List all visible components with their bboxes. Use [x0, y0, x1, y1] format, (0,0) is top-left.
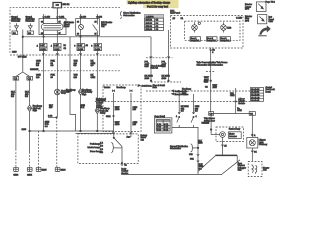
bcm legend table	[251, 88, 264, 103]
instrument cluster dashed box	[171, 15, 244, 48]
splice diamond S1	[66, 89, 93, 96]
page turn arrow	[258, 25, 271, 36]
svg-text:BPS: BPS	[245, 20, 250, 22]
svg-text:C-104: C-104	[97, 17, 103, 19]
svg-text:C-210: C-210	[45, 17, 51, 19]
svg-text:Schematics C24 Schematics: Schematics C24 Schematics	[197, 63, 223, 66]
door bus right box	[249, 112, 255, 116]
cluster inner dashed box	[185, 21, 240, 40]
svg-text:4: 4	[51, 45, 52, 47]
svg-text:Ckt: Ckt	[141, 138, 145, 141]
diagonal wire to bus bar	[198, 156, 215, 172]
class2 serial labels	[153, 85, 166, 89]
pin mark wire79 at C200	[79, 53, 81, 55]
relay pin numbers	[41, 22, 97, 36]
svg-text:Interior lamps: Interior lamps	[88, 146, 101, 149]
splice junction S209	[22, 122, 114, 132]
svg-text:87: 87	[95, 34, 97, 36]
door label 4door	[238, 99, 245, 105]
wire from fuse block down	[56, 8, 58, 21]
indicator lamp 1	[192, 22, 201, 32]
pin label stack wire 95	[94, 44, 102, 51]
dic wire pin mark	[210, 50, 212, 52]
pin mark serial1 C100	[146, 57, 173, 59]
svg-text:3 GRN: 3 GRN	[96, 107, 103, 109]
door wire pin mark	[235, 101, 237, 103]
wire 57 labels	[51, 61, 56, 79]
sunroof actuator box	[229, 132, 242, 139]
svg-text:GRN: GRN	[91, 77, 96, 79]
svg-text:G106: G106	[61, 169, 67, 171]
svg-text:Detail: Detail	[204, 122, 210, 125]
svg-text:Schematics: Schematics	[170, 147, 181, 150]
door switch wire top right	[235, 88, 237, 113]
interior ground wire	[197, 128, 199, 175]
headlamp switch dashed box	[103, 85, 141, 132]
svg-text:BPS: BPS	[245, 9, 250, 11]
connector mark on wire 79	[79, 16, 87, 18]
serial data note left	[138, 85, 152, 88]
svg-text:BLK: BLK	[80, 107, 85, 109]
stack pin numbers	[37, 44, 93, 50]
dashed boundary top underhood module	[10, 8, 120, 53]
ground splice symbol 2	[28, 23, 33, 30]
connector box left	[13, 76, 19, 80]
wire pin A relay K2	[80, 14, 82, 25]
door bus left box	[209, 112, 214, 116]
ground splice symbol 1	[14, 23, 19, 30]
splice dot S201	[106, 115, 114, 118]
svg-text:Schematic: Schematic	[26, 19, 35, 22]
wire col 57 mid	[56, 51, 58, 118]
connector mark C-211 on wire 57	[56, 16, 65, 18]
module boundary dashed upper	[146, 90, 250, 92]
offpage arrow box 2	[258, 15, 267, 24]
svg-text:86: 86	[41, 22, 43, 24]
wire 43 labels	[34, 61, 42, 79]
serial wire 1 labels	[145, 62, 154, 80]
MIC label	[170, 10, 180, 14]
wire D label	[49, 105, 53, 109]
svg-text:8 GY: 8 GY	[54, 45, 59, 47]
wire 57 dashed to ground	[56, 117, 58, 167]
door bus horizontal	[211, 112, 252, 114]
cluster right label	[269, 16, 275, 24]
cluster corner pin labels	[173, 17, 243, 20]
wire 97 lower	[96, 114, 98, 131]
twin master label	[204, 117, 215, 124]
door wire labels	[237, 108, 242, 112]
wire A G200 to ground	[15, 80, 17, 149]
relay K2 label	[101, 22, 113, 28]
svg-text:Aux: Aux	[127, 136, 130, 139]
svg-text:15A B3: 15A B3	[146, 25, 153, 28]
splice diamond S2	[95, 107, 110, 114]
svg-text:6: 6	[74, 45, 75, 47]
relay K1 box	[39, 19, 66, 35]
connector box right	[27, 76, 33, 80]
svg-text:Lamp Det: Lamp Det	[191, 39, 200, 42]
svg-text:Clstr: Clstr	[269, 20, 274, 23]
connector line C100 dashed	[38, 70, 120, 72]
highlight title bar	[127, 0, 179, 8]
svg-text:Passenger: Passenger	[96, 100, 106, 102]
relay K1 label	[64, 21, 75, 28]
radio wire pin mark	[178, 112, 180, 114]
switch pin symbol A	[112, 90, 114, 93]
switch wire B	[130, 93, 132, 133]
lower module dashed boundary	[78, 134, 138, 164]
sunroof dashed box	[216, 127, 244, 142]
svg-text:Courtesy: Courtesy	[259, 143, 268, 146]
wire col 79 mid	[80, 51, 82, 89]
connector mark C-210 on wire 43	[42, 16, 51, 18]
sunroof label	[229, 128, 240, 131]
fuse block box top	[53, 3, 62, 8]
courtesy lamp box	[247, 137, 258, 148]
svg-text:2: 2	[37, 45, 38, 47]
defog coil element	[252, 164, 257, 174]
svg-text:Coil: Coil	[263, 170, 267, 172]
dic wire from cluster	[210, 48, 212, 112]
svg-text:Sunroof: Sunroof	[229, 128, 236, 131]
svg-text:LAMPS: LAMPS	[146, 15, 154, 18]
serial data note arrows	[172, 90, 189, 96]
svg-text:ORN: ORN	[230, 95, 235, 97]
connector line C200 dashed	[10, 54, 120, 56]
switch wire A labels	[115, 107, 120, 126]
cluster pin label below	[212, 50, 214, 54]
pin label stack wire 79	[77, 44, 85, 51]
module header labels	[104, 86, 127, 89]
ground G103	[13, 167, 19, 176]
svg-text:10A B1: 10A B1	[146, 19, 153, 22]
audio legend table	[154, 118, 172, 133]
wire 79 lower label	[80, 105, 85, 109]
svg-text:C-LHB: C-LHB	[236, 17, 243, 19]
relay K2 out wires	[80, 30, 82, 44]
svg-text:8 GY: 8 GY	[95, 45, 100, 47]
switch right label	[141, 134, 149, 142]
sunroof motor circle	[220, 132, 226, 138]
svg-text:Serial Data: Serial Data	[142, 85, 153, 88]
underhood lamp E1	[54, 89, 72, 95]
svg-text:Actuator: Actuator	[229, 135, 237, 138]
wire B G202 to ground	[29, 80, 31, 152]
switch output connector mark	[121, 162, 128, 166]
svg-text:Module: Module	[238, 103, 245, 105]
pin marks on connector line	[112, 132, 114, 134]
dic wire dashes mid	[206, 71, 216, 73]
svg-text:11-40-38: 11-40-38	[251, 92, 260, 94]
ground code box G104	[12, 31, 18, 35]
svg-text:Schematics: Schematics	[123, 14, 135, 17]
courtesy lamp wire	[251, 115, 253, 137]
ground distribution brace right	[170, 144, 199, 152]
svg-text:Park lamps: Park lamps	[90, 143, 100, 146]
ground distribution label 2	[26, 16, 35, 23]
cluster pin box 3	[220, 37, 231, 42]
svg-text:8 GY: 8 GY	[40, 45, 45, 47]
wire 79 labels	[74, 60, 79, 79]
pin label stack wire 43	[40, 44, 48, 51]
splice dots serial	[150, 80, 152, 82]
wire pin A relay K1	[43, 14, 45, 24]
junction dots on bus	[43, 36, 44, 37]
cluster pin box 1	[190, 37, 201, 42]
ground G105	[36, 167, 47, 171]
svg-text:Ckt: Ckt	[66, 91, 70, 94]
svg-text:A2: A2	[86, 44, 88, 47]
serial splice dashed link	[151, 81, 181, 83]
wire from G105 down	[22, 30, 24, 73]
svg-text:Lamp Det: Lamp Det	[221, 39, 230, 42]
svg-text:LHB: LHB	[227, 27, 232, 29]
svg-text:C-104: C-104	[95, 49, 101, 51]
splice S108 stub	[48, 115, 57, 118]
wire C dashed to ground	[38, 131, 40, 167]
svg-text:Conn Detail: Conn Detail	[154, 115, 165, 118]
svg-text:G104: G104	[27, 175, 33, 177]
wire pin B relay K2	[96, 14, 98, 19]
wire splice1 down	[16, 30, 18, 31]
svg-text:Grid: Grid	[238, 170, 242, 172]
svg-text:Assy: Assy	[236, 128, 240, 131]
wire 79 lower	[80, 95, 82, 131]
wire splice2 down	[29, 30, 31, 31]
defog coil label	[263, 166, 269, 171]
bus wire horizontal	[23, 36, 151, 38]
svg-text:Inst Panel: Inst Panel	[170, 12, 180, 15]
rear defog bus bar	[215, 155, 237, 161]
svg-text:Ckt: Ckt	[101, 25, 105, 28]
diagonal wire to defog block	[222, 160, 240, 174]
courtesy lamp label	[259, 139, 268, 147]
svg-text:12-40-39: 12-40-39	[251, 95, 260, 97]
svg-text:10-40-30: 10-40-30	[251, 89, 260, 91]
main lower wire	[121, 173, 222, 175]
svg-text:13-40-40: 13-40-40	[251, 97, 260, 99]
relay K2 switch contact	[93, 19, 98, 36]
wire col 43 mid	[43, 51, 45, 131]
ground wire mid labels	[189, 141, 203, 157]
svg-text:Detail: Detail	[266, 90, 272, 93]
pin mark wire57 at C200	[56, 53, 58, 55]
ground wire labels right	[190, 158, 204, 170]
L wire left branch	[70, 37, 76, 131]
svg-text:8: 8	[91, 45, 92, 47]
connector mark on wire 95	[96, 16, 103, 18]
defog coil dashed box	[248, 161, 262, 176]
radio feed wire	[179, 92, 193, 114]
radio area labels	[202, 123, 209, 125]
svg-text:B1: B1	[64, 45, 66, 47]
svg-text:Interior: Interior	[104, 86, 111, 89]
headlamp switch contact	[113, 134, 131, 147]
switch pin symbol B	[130, 90, 132, 93]
ground G106	[55, 167, 66, 171]
svg-text:8: 8	[212, 52, 213, 54]
ground distribution label 1	[11, 16, 20, 23]
svg-text:30: 30	[41, 33, 43, 35]
dic wire labels	[204, 77, 209, 84]
svg-text:85: 85	[59, 22, 61, 24]
svg-text:15A B4: 15A B4	[146, 28, 153, 31]
pin mark wire43 at C200	[42, 53, 44, 55]
svg-text:C-103: C-103	[78, 49, 84, 51]
courtesy lamp ground wire	[251, 148, 257, 161]
offpage arrow box 1	[256, 2, 266, 12]
relay K1 coil	[41, 24, 63, 31]
left pin rows mid	[96, 103, 103, 110]
relay K2 box	[76, 19, 100, 36]
svg-text:Page 74-2: Page 74-2	[266, 2, 276, 4]
svg-text:87: 87	[59, 33, 61, 35]
svg-text:30: 30	[77, 34, 79, 36]
module boundary dashed long	[95, 101, 250, 103]
svg-text:Lamp Det: Lamp Det	[207, 39, 216, 42]
wire V split right	[23, 72, 30, 76]
wire 97 labels	[91, 61, 96, 79]
horizontal wire to switch	[76, 133, 114, 135]
radio wire labels above	[181, 89, 200, 113]
bcm legend label	[266, 86, 275, 93]
svg-text:ORN: ORN	[237, 110, 242, 112]
pin mark wire97 at C200	[96, 53, 98, 55]
serial data wire 2	[168, 30, 170, 81]
svg-text:4: 4	[196, 116, 197, 118]
wire pin B relay K1	[56, 8, 58, 24]
svg-text:SEO B2: SEO B2	[63, 4, 70, 6]
svg-text:C200: C200	[12, 52, 17, 54]
relay K2 coil circle	[79, 25, 84, 30]
svg-text:86: 86	[77, 22, 79, 24]
svg-text:1: 1	[176, 116, 177, 118]
splice diamond S3 on wire B	[27, 105, 43, 112]
svg-text:Data C2: Data C2	[151, 67, 159, 70]
splice dot radio	[172, 116, 199, 127]
svg-text:8 GY: 8 GY	[78, 45, 83, 47]
svg-text:GY WHB: GY WHB	[18, 57, 27, 59]
wire V split left	[16, 72, 23, 76]
svg-text:85: 85	[95, 22, 97, 24]
svg-text:Diode: Diode	[64, 26, 70, 28]
svg-text:C4: C4	[64, 48, 66, 50]
wire A label	[11, 92, 16, 99]
left edge pin rows	[100, 143, 104, 155]
class2 text labels	[151, 65, 164, 69]
wire col 97 mid	[96, 51, 98, 108]
boundary labels	[96, 99, 106, 103]
pin mark serial2 C100	[167, 56, 169, 58]
svg-text:10A B2: 10A B2	[146, 22, 153, 25]
svg-text:Schematic: Schematic	[11, 19, 20, 22]
cluster pin box 2	[207, 37, 218, 42]
rear defog text block	[238, 163, 247, 172]
splice dot S297	[204, 80, 218, 89]
offpage arrow label	[245, 3, 252, 22]
switch output wire	[121, 147, 123, 164]
ground code box G105	[27, 31, 33, 35]
svg-text:Lighting schematics of Backup: Lighting schematics of Backup charge	[128, 1, 171, 4]
svg-text:Part 2 for easy test: Part 2 for easy test	[147, 5, 168, 8]
svg-text:14-40-41: 14-40-41	[251, 100, 260, 102]
svg-text:Headlamp: Headlamp	[117, 87, 127, 89]
svg-text:G105: G105	[42, 169, 48, 171]
relay K1 coil out wires	[43, 30, 45, 43]
switch wire B labels	[133, 107, 138, 126]
twin communication label	[197, 61, 228, 66]
serial data wire 1	[150, 37, 152, 81]
pin label stack wire 57	[54, 44, 62, 51]
sunroof out wire	[221, 137, 227, 155]
fuse legend table	[145, 15, 164, 32]
sunroof feed wire	[210, 115, 220, 134]
switch position labels brace	[88, 143, 123, 153]
BCM text block bottom	[121, 168, 129, 175]
wire B label	[25, 92, 30, 99]
svg-text:C-211: C-211	[59, 17, 65, 19]
ground G104	[27, 167, 33, 176]
power distribution brace label	[121, 12, 142, 20]
serial wire 2 labels	[162, 62, 171, 80]
svg-text:C-103: C-103	[81, 17, 87, 19]
courtesy wire junction	[252, 134, 257, 137]
indicator lamp 2	[221, 22, 232, 32]
switch wire A	[113, 93, 115, 133]
